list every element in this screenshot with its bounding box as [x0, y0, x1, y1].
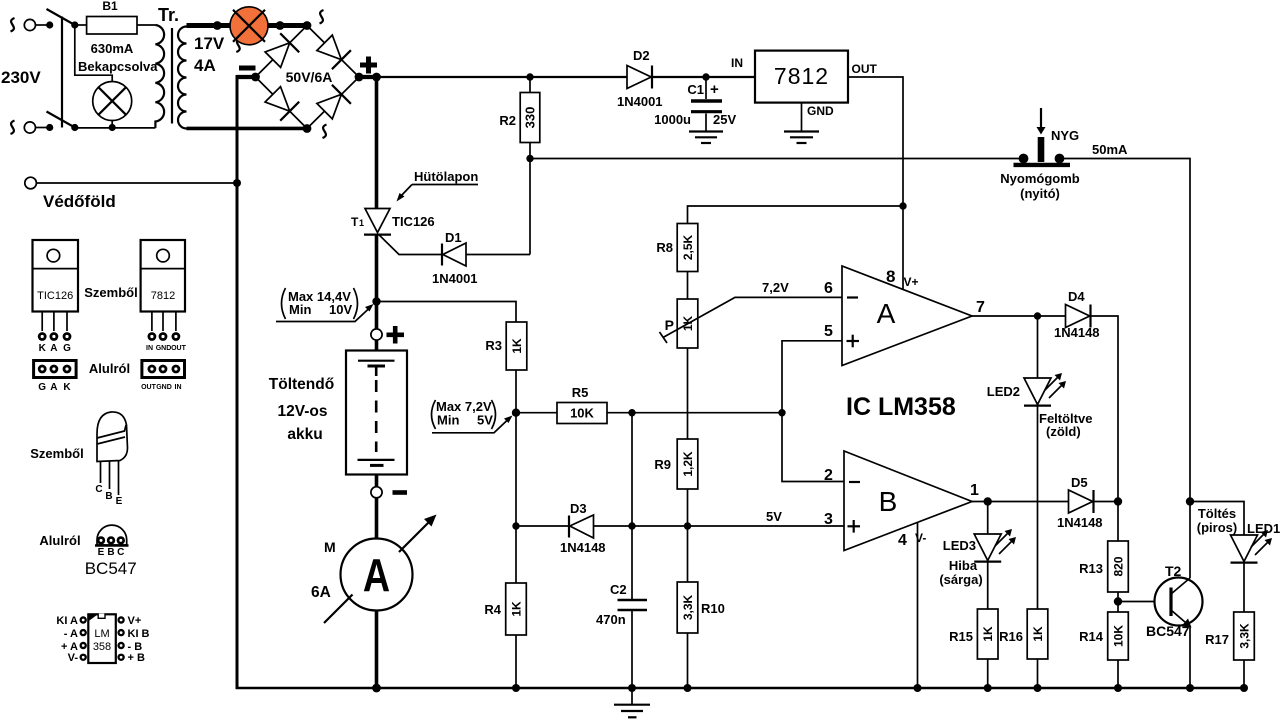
- junction dot: [233, 179, 241, 187]
- junction dot T2 base node: [1114, 597, 1122, 605]
- junction dot R2 bottom: [526, 155, 533, 162]
- svg-text:17V: 17V: [194, 34, 225, 53]
- diode D1 1N4001: [441, 244, 443, 266]
- resistor R15 1K: [977, 609, 998, 659]
- svg-text:R8: R8: [656, 240, 673, 255]
- annotation Max 7,2V Min 5V: [432, 399, 513, 433]
- svg-text:3,3K: 3,3K: [1238, 623, 1252, 649]
- svg-text:T: T: [351, 215, 359, 229]
- svg-text:A: A: [877, 298, 896, 329]
- wire node to R5: [516, 412, 557, 414]
- svg-text:R17: R17: [1205, 632, 1229, 647]
- svg-text:4A: 4A: [194, 56, 216, 75]
- svg-text:2,5K: 2,5K: [681, 234, 695, 260]
- wire R4 bottom: [515, 635, 517, 688]
- svg-text:1N4148: 1N4148: [560, 540, 606, 555]
- transformer Tr primary winding: [155, 25, 164, 128]
- svg-text:5V: 5V: [766, 509, 782, 524]
- svg-text:D5: D5: [1071, 475, 1088, 490]
- wire earth: [37, 182, 238, 184]
- svg-text:B: B: [107, 547, 114, 558]
- svg-text:3,3K: 3,3K: [681, 594, 695, 620]
- wire plus stub (thick): [359, 75, 377, 79]
- svg-text:R9: R9: [654, 457, 671, 472]
- capacitor C2 470n: [618, 599, 648, 602]
- wire node to opamp B pin2: [782, 413, 844, 482]
- wire T2 base: [1118, 601, 1171, 603]
- svg-text:KI B: KI B: [128, 628, 150, 640]
- bridge diode upper-left (anode at minus corner): [265, 33, 299, 67]
- svg-text:GND: GND: [807, 104, 834, 118]
- svg-text:R5: R5: [572, 385, 589, 400]
- svg-text:Min: Min: [437, 413, 459, 428]
- battery - terminal: [371, 487, 382, 498]
- diode D5 1N4148: [1069, 490, 1093, 513]
- svg-text:(sárga): (sárga): [939, 572, 982, 587]
- svg-text:K: K: [39, 343, 47, 354]
- potentiometer P 1K: [677, 299, 698, 348]
- junction dot LED2 node: [1034, 312, 1041, 319]
- svg-text:(piros): (piros): [1197, 520, 1237, 535]
- wire LED3 branch: [987, 502, 989, 535]
- junction dot C2 top node: [628, 409, 635, 416]
- svg-text:GND: GND: [156, 345, 172, 352]
- capacitor C1 1000u 25V: [705, 77, 707, 99]
- TIC126 bottom view: [34, 361, 77, 394]
- opamp A LM358: [842, 266, 972, 366]
- wire C2 branch vertical: [631, 413, 633, 600]
- resistor R14 10K: [1108, 612, 1129, 660]
- svg-text:IC LM358: IC LM358: [846, 393, 956, 421]
- svg-text:A: A: [50, 382, 57, 393]
- svg-text:BC547: BC547: [85, 559, 137, 578]
- regulator U2 7812: [755, 51, 848, 103]
- wire (fuse to transformer): [137, 24, 155, 26]
- junction dot R2 top: [526, 73, 533, 80]
- svg-text:G: G: [38, 382, 46, 393]
- junction dot battery + node: [372, 297, 380, 305]
- resistor R10 3,3K: [677, 582, 698, 633]
- svg-text:LED3: LED3: [943, 538, 976, 553]
- svg-text:1N4001: 1N4001: [432, 271, 478, 286]
- svg-text:K: K: [63, 382, 71, 393]
- svg-text:OUT: OUT: [141, 384, 157, 391]
- LED2 (Feltoltve zold): [1024, 378, 1051, 405]
- svg-text:50mA: 50mA: [1092, 142, 1128, 157]
- wire secondary bottom lead (thick): [187, 127, 308, 131]
- main ground symbol: [631, 688, 633, 705]
- svg-text:6: 6: [824, 280, 833, 297]
- junction dot: [109, 124, 116, 131]
- wire R10 top: [687, 526, 689, 582]
- BC547 bottom view: [95, 525, 129, 558]
- svg-text:V+: V+: [904, 275, 919, 289]
- wire minus vertical rail x=237: [236, 75, 239, 689]
- svg-text:P: P: [665, 317, 674, 333]
- lamp Bekapcsolva: [93, 82, 132, 121]
- junction dot: [276, 21, 285, 30]
- wire opamp A output pin7: [972, 315, 1066, 317]
- svg-text:C: C: [117, 547, 124, 558]
- svg-text:R13: R13: [1079, 561, 1103, 576]
- diode D2 1N4001: [627, 66, 651, 89]
- junction dot 7,2V divider node: [512, 409, 520, 417]
- junction dot R13 top: [1114, 497, 1122, 505]
- junction dot 5V node: [684, 522, 691, 529]
- bottom ground rail: [236, 687, 1244, 690]
- wire P bottom to R9: [687, 348, 689, 439]
- svg-text:630mA: 630mA: [91, 41, 134, 56]
- svg-text:LM: LM: [94, 628, 109, 640]
- resistor R4 1K: [506, 583, 527, 635]
- wire secondary top lead (thick): [187, 23, 308, 28]
- switch S1b lever: [47, 112, 75, 128]
- junction dot plus node: [372, 73, 381, 82]
- svg-text:D2: D2: [633, 48, 650, 63]
- ground below C1: [689, 130, 723, 132]
- bridge corner dots: [303, 21, 312, 30]
- bridge diode lower-right: [317, 85, 351, 119]
- thyristor T1 TIC126: [365, 209, 390, 233]
- wire D4 to D5 node: [1091, 316, 1119, 502]
- wire R8 to P: [687, 272, 689, 300]
- wire R3 bottom to node: [515, 370, 517, 413]
- junction dot R4 top node: [512, 522, 519, 529]
- svg-text:B: B: [879, 486, 898, 517]
- wire LED2 to R16: [1037, 406, 1039, 609]
- svg-text:7812: 7812: [774, 63, 829, 89]
- svg-text:C2: C2: [610, 582, 627, 597]
- switch linkage bar: [61, 17, 63, 128]
- svg-text:1N4148: 1N4148: [1054, 325, 1100, 340]
- switch S1b pole dots: [46, 124, 53, 131]
- switch S1a lever: [47, 9, 75, 25]
- minus sign at bridge: [239, 66, 256, 71]
- svg-text:IN: IN: [175, 384, 182, 391]
- wire LED1 branch: [1190, 502, 1244, 536]
- svg-text:R14: R14: [1079, 629, 1104, 644]
- svg-text:1K: 1K: [981, 626, 995, 642]
- junction dot D3 cathode node: [628, 522, 635, 529]
- 7812 bottom view: [141, 361, 184, 392]
- bridge diode lower-left: [265, 87, 299, 121]
- resistor R5 10K: [557, 403, 607, 424]
- diode D4 1N4148: [1066, 305, 1090, 328]
- Vedofold earth terminal: [25, 177, 37, 189]
- svg-text:25V: 25V: [713, 112, 736, 127]
- svg-text:C1: C1: [687, 82, 704, 97]
- battery 12V box: [346, 351, 407, 475]
- svg-text:D3: D3: [570, 501, 587, 516]
- svg-text:akku: akku: [287, 426, 322, 443]
- wire gate of T1: [379, 235, 442, 255]
- wire minus stub (thick): [237, 75, 256, 79]
- svg-text:B1: B1: [102, 0, 118, 13]
- junction dot: [213, 21, 222, 30]
- wire node to opamp A pin5: [782, 341, 842, 413]
- wire R5 right to opamp nodes: [607, 412, 782, 414]
- terminal circle L: [24, 19, 35, 30]
- wire R10 bottom: [687, 633, 689, 688]
- wire main vertical below T1 (thick): [375, 235, 379, 329]
- wire P wiper to pin6 (7,2V): [663, 297, 842, 337]
- resistor R17 3,3K: [1234, 612, 1255, 660]
- 7812 package front view: [141, 240, 187, 352]
- svg-text:R2: R2: [499, 113, 516, 128]
- svg-text:50V/6A: 50V/6A: [286, 69, 333, 85]
- svg-text:8: 8: [886, 267, 895, 286]
- svg-text:R10: R10: [701, 601, 725, 616]
- svg-text:V+: V+: [128, 615, 142, 627]
- svg-text:Töltendő: Töltendő: [269, 376, 334, 393]
- svg-text:(zöld): (zöld): [1046, 424, 1081, 439]
- svg-text:A: A: [50, 343, 57, 354]
- AC squiggle bottom right of bridge: [323, 125, 327, 139]
- svg-text:D4: D4: [1068, 289, 1085, 304]
- svg-text:10K: 10K: [1112, 625, 1126, 647]
- svg-text:A: A: [363, 549, 390, 600]
- diode D3 1N4148: [568, 516, 570, 538]
- svg-text:D1: D1: [445, 230, 462, 245]
- svg-text:7: 7: [976, 299, 985, 316]
- svg-text:7,2V: 7,2V: [762, 280, 789, 295]
- fuse B1: [87, 17, 137, 35]
- wire main charge vertical (thick): [375, 77, 379, 209]
- svg-text:OUT: OUT: [852, 62, 878, 76]
- svg-text:E: E: [116, 496, 123, 507]
- svg-text:12V-os: 12V-os: [278, 403, 328, 420]
- svg-text:+: +: [710, 81, 719, 98]
- svg-text:B: B: [105, 491, 112, 502]
- wire LED1 to R17: [1243, 563, 1245, 612]
- wire R3R4 link: [515, 413, 517, 526]
- svg-text:230V: 230V: [1, 68, 41, 87]
- junction dot LED3 node: [984, 497, 992, 505]
- LM358 DIP8 pinout: [56, 614, 149, 665]
- wire D5 to R13: [1094, 501, 1119, 503]
- wire: [36, 24, 47, 26]
- LED1 (Toltes piros): [1231, 535, 1258, 562]
- svg-text:BC547: BC547: [1146, 623, 1190, 639]
- wire LED2 branch: [1037, 316, 1039, 378]
- wire: [375, 475, 379, 488]
- svg-text:IN: IN: [146, 345, 153, 352]
- svg-text:NYG: NYG: [1051, 128, 1079, 143]
- wire battery node to R3: [377, 302, 517, 323]
- svg-text:R16: R16: [999, 629, 1023, 644]
- svg-text:6A: 6A: [311, 584, 331, 601]
- wire: [375, 340, 379, 351]
- svg-text:1,2K: 1,2K: [681, 451, 695, 477]
- svg-text:V-: V-: [68, 652, 79, 664]
- LED3 (Hiba sarga): [974, 534, 1001, 561]
- svg-text:Tr.: Tr.: [158, 5, 179, 25]
- ground rail junction dots: [372, 684, 381, 693]
- junction dot 12V/R8 node: [899, 202, 906, 209]
- TIC126 package front view: [33, 240, 79, 354]
- wire: [375, 498, 379, 539]
- svg-text:Hiba: Hiba: [949, 558, 978, 573]
- svg-text:Védőföld: Védőföld: [43, 192, 116, 211]
- svg-text:C: C: [95, 484, 102, 495]
- svg-text:470n: 470n: [596, 612, 626, 627]
- wire NYG to right rail, down: [1060, 159, 1191, 579]
- svg-text:10V: 10V: [329, 302, 352, 317]
- svg-text:1K: 1K: [1031, 626, 1045, 642]
- svg-text:Szemből: Szemből: [30, 446, 83, 461]
- bridge diode upper-right: [317, 35, 351, 69]
- svg-text:1000u: 1000u: [654, 112, 691, 127]
- wire (Bekapcsolva branch): [75, 25, 112, 82]
- wire R9 bottom: [687, 489, 689, 526]
- svg-text:4: 4: [898, 532, 907, 549]
- svg-text:LED1: LED1: [1247, 521, 1280, 536]
- annotation Max 14,4V Min 10V: [276, 288, 374, 322]
- svg-text:IN: IN: [731, 56, 743, 70]
- plus sign at bridge: [360, 63, 377, 68]
- svg-text:R4: R4: [484, 602, 501, 617]
- bridge rectifier 50V/6A diamond edges: [256, 26, 308, 78]
- svg-text:1N4001: 1N4001: [617, 94, 663, 109]
- svg-text:3: 3: [824, 511, 833, 528]
- wire top rail 17V: [377, 76, 756, 78]
- svg-text:2: 2: [824, 467, 833, 484]
- svg-text:330: 330: [523, 107, 538, 129]
- transformer Tr secondary winding: [178, 27, 187, 129]
- svg-text:Töltés: Töltés: [1198, 506, 1236, 521]
- AC squiggle top right of bridge: [320, 10, 324, 24]
- svg-text:Alulról: Alulról: [89, 361, 130, 376]
- resistor R13 820: [1117, 502, 1119, 542]
- svg-text:R3: R3: [485, 338, 502, 353]
- svg-text:1: 1: [359, 218, 364, 228]
- junction dot LED1 node: [1186, 497, 1194, 505]
- wire R4: [515, 526, 517, 583]
- svg-text:+ B: + B: [128, 652, 145, 664]
- svg-text:820: 820: [1112, 556, 1126, 576]
- svg-text:7812: 7812: [151, 290, 175, 302]
- svg-text:Nyomógomb: Nyomógomb: [1000, 171, 1080, 186]
- wire (switch to fuse): [75, 24, 87, 26]
- svg-text:Min: Min: [289, 302, 311, 317]
- svg-text:KI A: KI A: [56, 615, 78, 627]
- svg-text:5V: 5V: [477, 413, 493, 428]
- svg-text:Hütölapon: Hütölapon: [414, 169, 478, 184]
- opamp B LM358: [844, 451, 972, 551]
- resistor R16 1K: [1027, 609, 1048, 659]
- svg-text:OUT: OUT: [171, 345, 187, 352]
- svg-text:TIC126: TIC126: [37, 290, 73, 302]
- node L (mains phase terminal, AC squiggle): [11, 18, 15, 32]
- wire (bottom mains wire to transformer): [75, 127, 156, 129]
- node N (mains neutral terminal, AC squiggle): [11, 121, 15, 135]
- resistor R9 1,2K: [677, 439, 698, 489]
- wire 7812 GND pin: [801, 103, 803, 131]
- svg-text:M: M: [324, 539, 336, 555]
- svg-text:10K: 10K: [570, 406, 594, 421]
- wire 12V row y=158.5: [530, 158, 1024, 160]
- svg-text:Bekapcsolva: Bekapcsolva: [78, 59, 158, 74]
- wire (lamp bottom): [111, 121, 113, 128]
- junction dot pin5/pin2 node: [778, 409, 785, 416]
- wire ammeter to ground rail: [375, 611, 379, 689]
- wire: [36, 127, 47, 129]
- wire 5V row: [516, 525, 844, 527]
- resistor R3 1K: [506, 322, 527, 370]
- svg-text:1N4148: 1N4148: [1057, 515, 1103, 530]
- svg-text:T2: T2: [1165, 563, 1182, 579]
- svg-text:1K: 1K: [510, 601, 524, 617]
- junction dot C1 top: [702, 73, 709, 80]
- BC547 package front view: [95, 412, 127, 507]
- wire opamp B pin4 to ground rail: [917, 522, 919, 688]
- pushbutton NYG (normally closed): [1037, 127, 1046, 135]
- svg-text:TIC126: TIC126: [392, 214, 435, 229]
- switch S1a pole dots: [46, 21, 53, 28]
- svg-text:G: G: [63, 343, 71, 354]
- wire R8 top link: [688, 206, 904, 224]
- svg-text:1K: 1K: [510, 338, 524, 354]
- lamp (blown, orange) on secondary lead: [230, 7, 268, 45]
- wire opamp B output pin1: [972, 501, 1069, 503]
- ground below 7812: [784, 130, 819, 132]
- svg-text:Szemből: Szemből: [84, 285, 137, 300]
- svg-text:E: E: [98, 547, 105, 558]
- wire LED3 to R15: [987, 562, 989, 609]
- wire D1 up to R2 node: [529, 159, 531, 255]
- svg-text:358: 358: [93, 641, 111, 653]
- resistor R2 330: [529, 77, 531, 93]
- terminal circle N: [24, 122, 35, 133]
- svg-text:- A: - A: [64, 628, 78, 640]
- svg-text:GND: GND: [156, 384, 172, 391]
- svg-text:LED2: LED2: [987, 384, 1020, 399]
- svg-text:(nyitó): (nyitó): [1020, 186, 1060, 201]
- transformer core: [171, 28, 173, 124]
- svg-text:Alulról: Alulról: [39, 533, 80, 548]
- battery + terminal: [371, 329, 382, 340]
- resistor R8 2,5K: [677, 224, 698, 272]
- ammeter M 6A: [341, 539, 413, 611]
- svg-text:1: 1: [970, 482, 979, 499]
- wire 7812 OUT down to V+: [848, 77, 903, 290]
- svg-text:R15: R15: [949, 629, 973, 644]
- transistor T2 BC547: [1155, 578, 1203, 626]
- svg-text:5: 5: [824, 323, 833, 340]
